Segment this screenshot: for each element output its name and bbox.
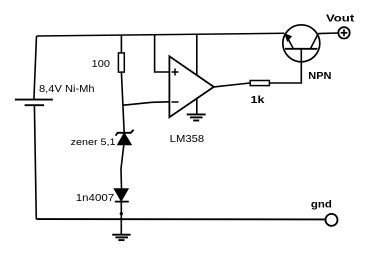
svg-text:gnd: gnd [311, 200, 332, 211]
wire top rail from battery to transistor emitter [37, 33, 285, 36]
svg-text:100: 100 [92, 59, 111, 70]
wire left rail battery bottom to bottom-left corner [34, 105, 36, 219]
wire transistor collector to Vout terminal [318, 32, 338, 35]
wire diode cathode down through bottom rail to ground [120, 202, 122, 235]
ground under op-amp [187, 114, 206, 120]
svg-text:LM358: LM358 [170, 133, 205, 145]
svg-text:zener 5,1: zener 5,1 [71, 137, 116, 147]
zener diode D1 5.1V [116, 130, 134, 145]
svg-text:1k: 1k [251, 95, 265, 106]
wire op-amp output to resistor R2 [214, 83, 250, 87]
wire zener anode to diode D2 [121, 145, 124, 189]
wire junction down to zener cathode [123, 105, 124, 133]
wire V- pin from op-amp to ground [196, 99, 198, 115]
wire from top rail down to resistor R1 [120, 35, 122, 53]
wire resistor R2 to transistor base [269, 49, 301, 83]
wire junction to op-amp inverting input [123, 102, 169, 105]
node gnd terminal [326, 214, 338, 226]
svg-text:8,4V Ni-Mh: 8,4V Ni-Mh [39, 84, 95, 95]
wire left rail battery top [34, 36, 37, 100]
wire bottom rail to gnd terminal [36, 218, 325, 220]
transistor Q1 NPN [283, 25, 320, 62]
diode D2 1n4007 [114, 189, 129, 202]
node junction dot on diode wire [120, 212, 123, 215]
wire top rail to op-amp non-inverting input [155, 35, 170, 72]
battery B1 [15, 100, 53, 106]
wire V+ pin from top rail to op-amp [196, 34, 198, 75]
svg-text:Vout: Vout [326, 14, 355, 25]
resistor R1 100 [118, 53, 124, 72]
svg-text:1n4007: 1n4007 [76, 192, 114, 204]
resistor R2 1k [250, 81, 269, 86]
wire from resistor R1 down to junction [121, 72, 123, 105]
op-amp U1 LM358 [169, 56, 213, 117]
ground under diode [112, 235, 130, 240]
svg-text:NPN: NPN [308, 71, 331, 82]
node Vout terminal [338, 27, 349, 38]
